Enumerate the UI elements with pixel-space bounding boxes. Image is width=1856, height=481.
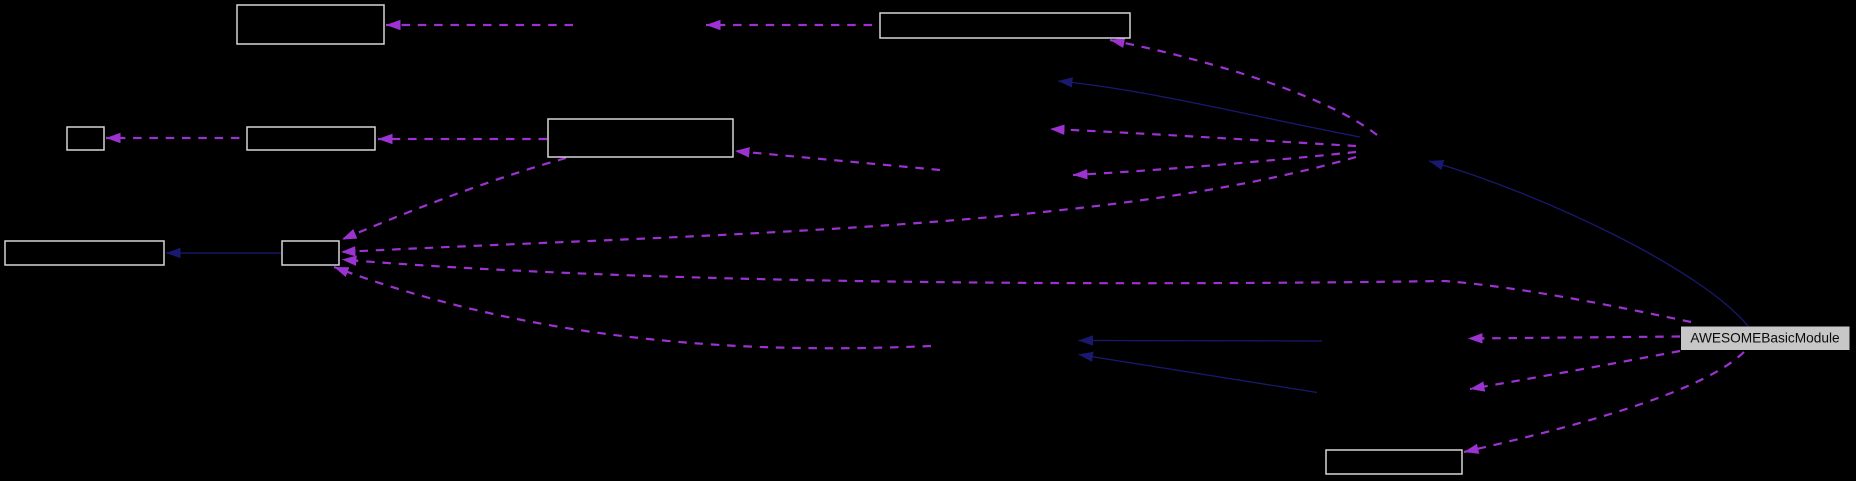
box B6 (middle-left wide) bbox=[5, 241, 164, 265]
box B1 (top-left, two-line node) bbox=[237, 5, 384, 44]
box B3 (small left) bbox=[67, 127, 104, 150]
box B9 (bottom) bbox=[1326, 450, 1462, 474]
edge: box B2 to invisible node N1 (dashed) bbox=[706, 24, 879, 26]
edge: AWESOMEBasicModule to invisible node N7 (dashed) bbox=[1468, 337, 1680, 339]
svg-text:AWESOMEBasicModule: AWESOMEBasicModule bbox=[1690, 330, 1839, 345]
edge: hub node N3 to box B7 (long dashed curve) bbox=[341, 157, 1356, 252]
box B2 (top-middle) bbox=[880, 13, 1130, 38]
node AWESOMEBasicModule (highlighted grey) bbox=[1681, 327, 1850, 351]
edge: box B5 to box B7 (dashed) bbox=[342, 158, 566, 240]
edge: AWESOMEBasicModule to hub node N3 (blue solid curve) bbox=[1429, 161, 1748, 326]
edge: AWESOMEBasicModule to invisible node N8 (dashed) bbox=[1470, 351, 1680, 389]
edge: invisible node N5 to box B5 (dashed) bbox=[735, 151, 940, 170]
edge: invisible node N7 to invisible node N4 (blue solid) bbox=[1079, 340, 1323, 343]
edge: box B5 to box B4 (dashed) bbox=[378, 138, 547, 140]
edge: box B7 to box B6 (blue solid) bbox=[166, 252, 281, 254]
box B5 (two-line node) bbox=[548, 119, 733, 157]
edge: invisible node N8 to invisible node N4 (blue solid) bbox=[1079, 355, 1318, 393]
edge: hub node N3 to invisible node N2 (blue solid) bbox=[1058, 81, 1360, 137]
box B4 bbox=[247, 127, 375, 150]
edge: invisible node N1 to box B1 (dashed) bbox=[386, 24, 573, 26]
edge: box B4 to box B3 (dashed) bbox=[106, 137, 246, 139]
edge: invisible node N4 to box B7 (dashed curve) bbox=[334, 267, 931, 348]
edge: AWESOMEBasicModule to box B7 (long dashed curve) bbox=[342, 260, 1691, 323]
box B7 (small middle) bbox=[282, 241, 339, 265]
edge: hub node N3 to invisible node N6 (dashed) bbox=[1050, 129, 1356, 146]
edge: hub node N3 to box B2 (dashed) bbox=[1110, 40, 1377, 135]
edge: AWESOMEBasicModule to box B9 (dashed curve) bbox=[1464, 352, 1744, 452]
edge: hub node N3 to invisible node N5 (dashed) bbox=[1073, 152, 1356, 175]
